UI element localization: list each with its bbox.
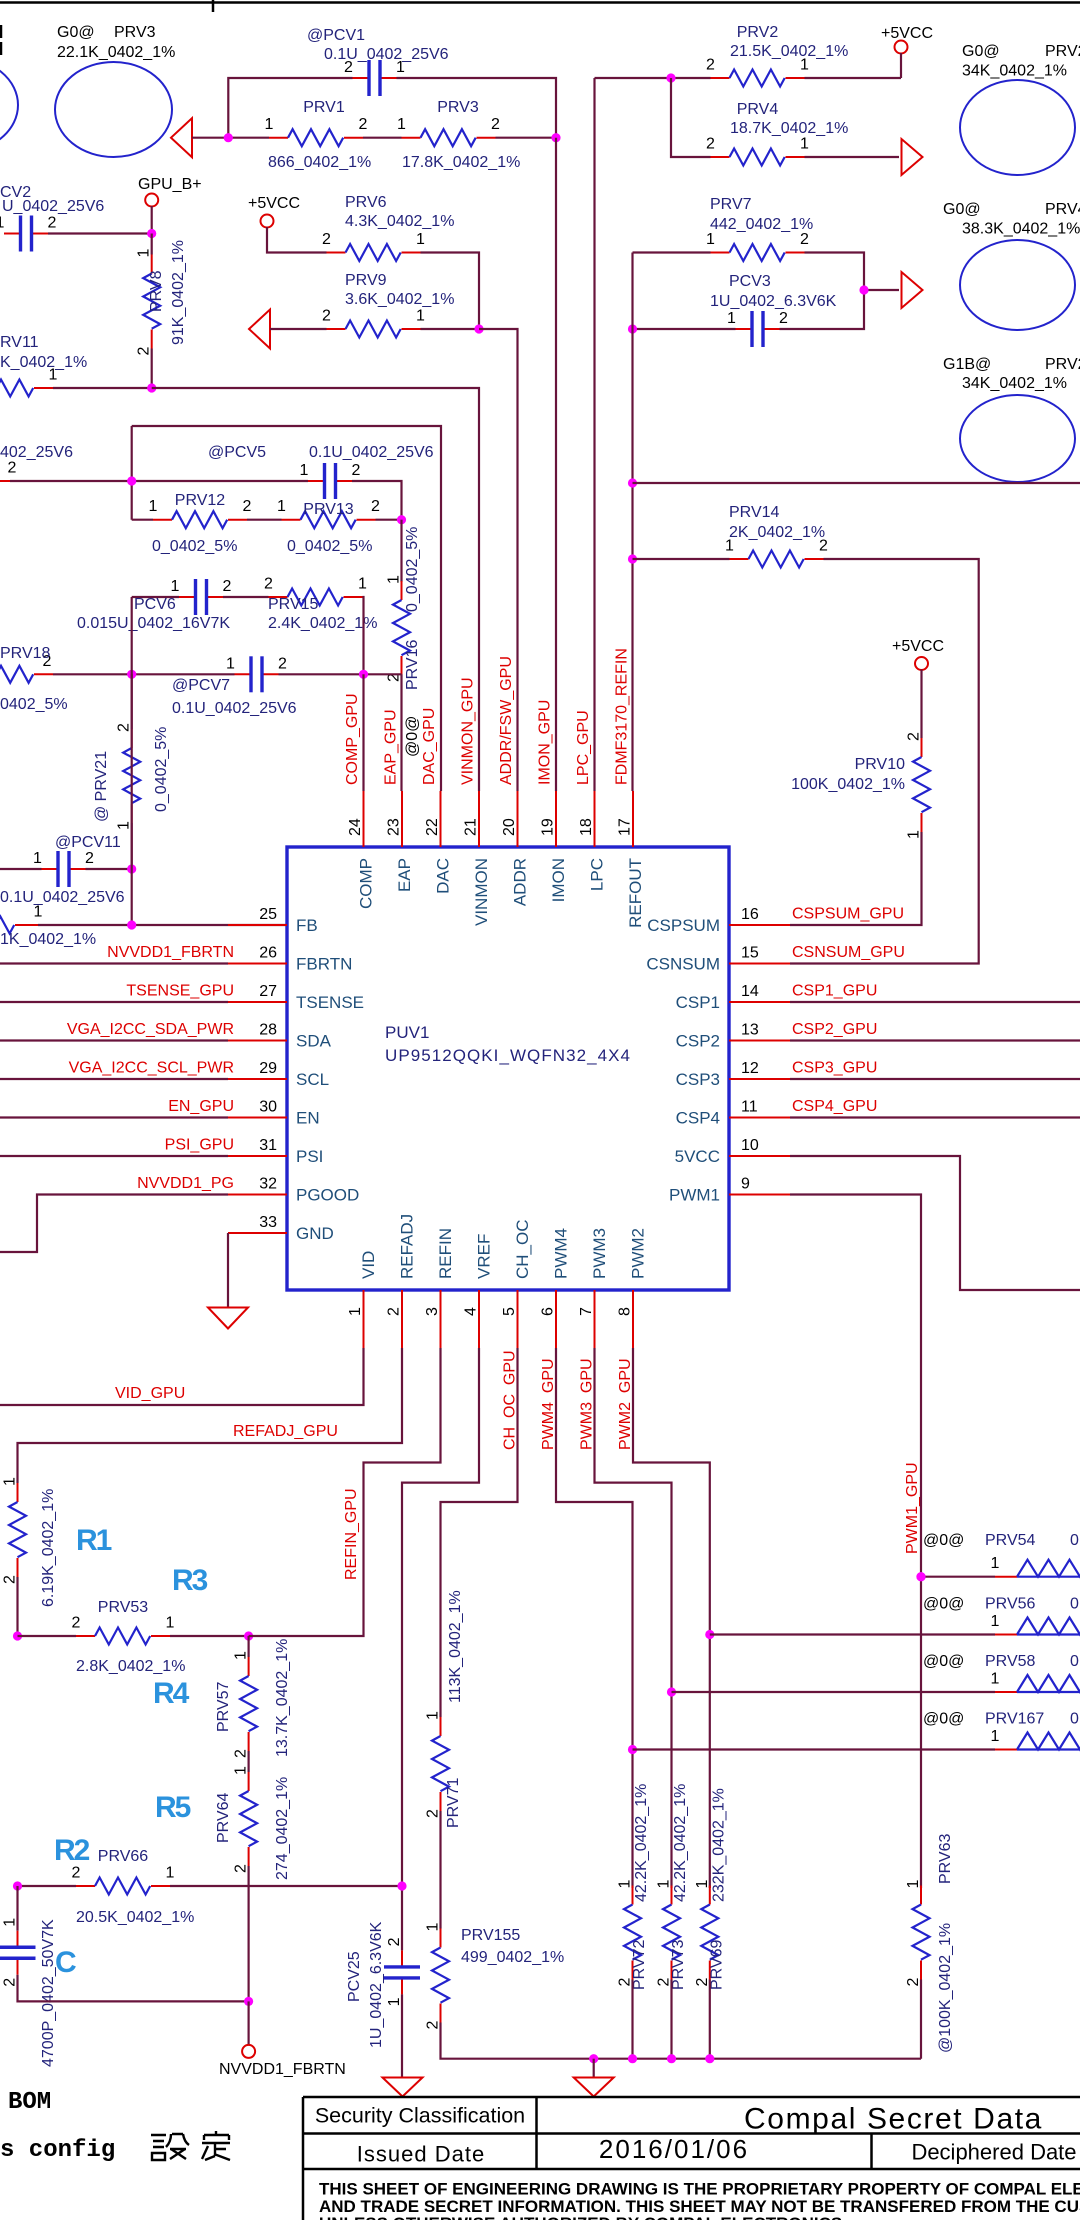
svg-text:3.6K_0402_1%: 3.6K_0402_1% bbox=[345, 291, 454, 308]
svg-text:PRV4: PRV4 bbox=[737, 101, 779, 118]
resistor PRV2 21.5K_0402_1% bbox=[706, 24, 848, 87]
svg-text:13: 13 bbox=[741, 1022, 759, 1039]
pin 24 COMP stub bbox=[347, 791, 376, 909]
svg-text:CSP3: CSP3 bbox=[676, 1070, 720, 1089]
wire PRV66 to VREF node bbox=[170, 1885, 402, 1887]
svg-text:VGA_I2CC_SDA_PWR: VGA_I2CC_SDA_PWR bbox=[67, 1021, 234, 1038]
label PRV10 bbox=[791, 756, 905, 793]
svg-text:1: 1 bbox=[706, 231, 715, 248]
svg-text:2: 2 bbox=[386, 1307, 403, 1316]
svg-text:PRV2: PRV2 bbox=[1045, 43, 1080, 60]
label PRV14 bbox=[729, 504, 825, 541]
svg-text:PWM3: PWM3 bbox=[590, 1228, 609, 1279]
pin 19 IMON stub bbox=[540, 791, 569, 902]
svg-text:7: 7 bbox=[578, 1307, 595, 1316]
svg-text:1: 1 bbox=[136, 249, 153, 258]
wire +5VCC to PRV10 bbox=[920, 670, 922, 739]
svg-text:PRV15: PRV15 bbox=[268, 596, 319, 613]
svg-text:+5VCC: +5VCC bbox=[892, 638, 944, 655]
wire rail gnd drop bbox=[593, 2059, 595, 2078]
svg-text:4: 4 bbox=[463, 1307, 480, 1316]
junction FB node bbox=[127, 920, 136, 929]
svg-text:@0@: @0@ bbox=[923, 1653, 964, 1670]
svg-text:22: 22 bbox=[424, 818, 441, 836]
wire PRV21 bottom link bbox=[131, 823, 133, 869]
resistor PRV4 18.7K_0402_1% bbox=[706, 101, 848, 166]
capacitor PCV3 1U_0402_6.3V6K bbox=[727, 310, 788, 347]
wire PCV11 row left bbox=[0, 868, 42, 870]
svg-text:PRV7: PRV7 bbox=[710, 196, 752, 213]
svg-text:Issued Date: Issued Date bbox=[357, 2142, 485, 2167]
label PRV18 bbox=[0, 645, 68, 713]
label PRV73 bbox=[670, 1784, 689, 1990]
label PRV71 bbox=[445, 1590, 464, 1828]
svg-text:@0@: @0@ bbox=[923, 1532, 964, 1549]
svg-text:LPC_GPU: LPC_GPU bbox=[575, 710, 592, 785]
pin 3 REFIN stub bbox=[424, 1228, 455, 1348]
svg-text:1: 1 bbox=[991, 1555, 1000, 1572]
svg-text:PRV4: PRV4 bbox=[1045, 201, 1080, 218]
svg-text:1: 1 bbox=[416, 308, 425, 325]
svg-text:2.4K_0402_1%: 2.4K_0402_1% bbox=[268, 615, 377, 632]
junction PRV58 tap bbox=[667, 1687, 676, 1696]
label PRV11 bbox=[0, 334, 87, 371]
svg-text:CSP4_GPU: CSP4_GPU bbox=[792, 1098, 877, 1115]
svg-text:CSP1: CSP1 bbox=[676, 993, 720, 1012]
resistor PRV1 866_0402_1% bbox=[265, 99, 372, 171]
label @PCV2 (cut) bbox=[0, 184, 104, 215]
svg-text:0402_5%: 0402_5% bbox=[0, 696, 68, 713]
resistor PRV64 274_0402_1% bbox=[233, 1766, 258, 1873]
svg-text:1: 1 bbox=[656, 1880, 673, 1889]
pin 5 CH_OC stub bbox=[501, 1219, 532, 1348]
svg-text:PRV1: PRV1 bbox=[303, 99, 345, 116]
svg-text:16: 16 bbox=[741, 906, 759, 923]
svg-text:1: 1 bbox=[233, 1651, 250, 1660]
svg-text:2: 2 bbox=[491, 116, 500, 133]
svg-text:THIS SHEET OF ENGINEERING DRAW: THIS SHEET OF ENGINEERING DRAWING IS THE… bbox=[319, 2180, 1080, 2199]
wire PRV167 row bbox=[633, 1748, 996, 1750]
wire PRV63 to rail bbox=[920, 1980, 922, 2059]
wire EAP vertical bbox=[400, 674, 402, 791]
wire PRV155 to rail bbox=[441, 2023, 922, 2059]
svg-text:499_0402_1%: 499_0402_1% bbox=[461, 1949, 564, 1966]
label @0@ PRV167 bbox=[923, 1711, 1079, 1728]
wire NVVDD1_FBRTN row bbox=[0, 962, 228, 964]
svg-text:0: 0 bbox=[1070, 1653, 1079, 1670]
resistor PRV7 442_0402_1% bbox=[706, 231, 809, 261]
wire PCV6 to PRV15 bbox=[223, 596, 269, 598]
svg-text:COMP_GPU: COMP_GPU bbox=[344, 693, 361, 785]
svg-text:RV11: RV11 bbox=[0, 334, 39, 351]
svg-text:1: 1 bbox=[991, 1613, 1000, 1630]
pin 29 SCL stub bbox=[228, 1060, 329, 1089]
pin 31 PSI stub bbox=[228, 1137, 323, 1166]
svg-text:2: 2 bbox=[223, 578, 232, 595]
junction PRV53 left bbox=[13, 1631, 22, 1640]
capacitor C 4700P_0402_50V7K bbox=[0, 1918, 36, 1987]
wire PRV71-PRV155 bbox=[439, 1811, 441, 1929]
wire REFADJ_GPU bbox=[18, 1348, 403, 1483]
wire IMON vertical to pin 19 bbox=[555, 138, 557, 791]
svg-text:2016/01/06: 2016/01/06 bbox=[599, 2134, 749, 2164]
hanzi 定 bbox=[202, 2131, 230, 2160]
label PRV63 bbox=[937, 1833, 954, 2053]
svg-text:5VCC: 5VCC bbox=[675, 1147, 720, 1166]
wire EN_GPU row bbox=[0, 1116, 228, 1118]
wire PCV1 to corner bbox=[397, 78, 557, 138]
svg-text:DAC_GPU: DAC_GPU bbox=[421, 708, 438, 785]
svg-text:CSP4: CSP4 bbox=[676, 1109, 720, 1128]
svg-text:2: 2 bbox=[322, 231, 331, 248]
svg-text:REFIN_GPU: REFIN_GPU bbox=[343, 1488, 360, 1580]
svg-text:PRV63: PRV63 bbox=[937, 1833, 954, 1884]
svg-text:0_0402_5%: 0_0402_5% bbox=[404, 527, 421, 612]
wire PWM1 from pin9 bbox=[790, 1195, 921, 1889]
svg-text:2: 2 bbox=[906, 732, 923, 741]
svg-text:PRV54: PRV54 bbox=[985, 1532, 1036, 1549]
svg-text:402_25V6: 402_25V6 bbox=[0, 444, 73, 461]
label G0@ PRV2 bbox=[962, 43, 1080, 80]
wire PRV66 row seg1 bbox=[18, 1885, 77, 1887]
svg-text:1: 1 bbox=[233, 1766, 250, 1775]
resistor PRV54 @0@ bbox=[991, 1555, 1080, 1577]
svg-text:1: 1 bbox=[149, 498, 158, 515]
svg-text:1: 1 bbox=[991, 1671, 1000, 1688]
ground rail bbox=[574, 2078, 614, 2097]
svg-text:IMON_GPU: IMON_GPU bbox=[537, 700, 554, 785]
wire PRV7 right corner down bbox=[805, 253, 865, 291]
svg-text:LPC: LPC bbox=[588, 858, 607, 891]
svg-text:DAC: DAC bbox=[434, 858, 453, 894]
pin 13 CSP2 stub bbox=[676, 1022, 790, 1051]
svg-text:PRV13: PRV13 bbox=[303, 501, 354, 518]
label PRV9 bbox=[345, 272, 454, 308]
label PRV16 bbox=[404, 527, 421, 757]
pin 23 EAP stub bbox=[386, 791, 415, 892]
svg-text:VID_GPU: VID_GPU bbox=[115, 1385, 185, 1402]
svg-text:@0@: @0@ bbox=[923, 1711, 964, 1728]
wire GPU_B+ node to PRV8 bbox=[151, 234, 153, 255]
ellipse spare G0@ PRV3 bbox=[55, 62, 172, 157]
svg-text:2: 2 bbox=[371, 498, 380, 515]
resistor PRV155 499_0402_1% bbox=[425, 1923, 450, 2030]
svg-text:42.2K_0402_1%: 42.2K_0402_1% bbox=[633, 1784, 650, 1902]
svg-text:+5VCC: +5VCC bbox=[881, 25, 933, 42]
power port +5VCC top bbox=[895, 41, 908, 54]
svg-text:0.1U_0402_25V6: 0.1U_0402_25V6 bbox=[0, 889, 125, 906]
svg-text:30: 30 bbox=[259, 1099, 277, 1116]
svg-text:2: 2 bbox=[264, 576, 273, 593]
wire PCV5 to PRV16 top bbox=[352, 481, 402, 520]
wire PWM2 from pin8 bbox=[633, 1348, 710, 1888]
label PCV6 bbox=[77, 596, 230, 632]
pin 6 PWM4 stub bbox=[540, 1228, 571, 1348]
svg-text:232K_0402_1%: 232K_0402_1% bbox=[710, 1788, 727, 1902]
svg-text:38.3K_0402_1%: 38.3K_0402_1% bbox=[962, 221, 1080, 238]
ellipse spare G0@ PRV2 bbox=[960, 80, 1075, 175]
svg-text:COMP: COMP bbox=[357, 858, 376, 909]
wire PCV2 to GPU_B+ node bbox=[48, 232, 152, 234]
label @PCV1 bbox=[307, 27, 449, 63]
ground pin33 bbox=[208, 1308, 248, 1329]
svg-text:6: 6 bbox=[540, 1307, 557, 1316]
wire 4700P to bottom row bbox=[18, 1975, 249, 2002]
svg-text:GPU_B+: GPU_B+ bbox=[138, 176, 202, 193]
svg-text:PWM2: PWM2 bbox=[629, 1228, 648, 1279]
label @PCV11 bbox=[0, 834, 125, 906]
resistor PRV53 2.8K_0402_1% bbox=[72, 1599, 186, 1675]
svg-text:2: 2 bbox=[72, 1865, 81, 1882]
wire PRV12 row seg1 bbox=[132, 519, 153, 521]
svg-text:ADDR/FSW_GPU: ADDR/FSW_GPU bbox=[498, 656, 515, 785]
resistor PRV58 @0@ bbox=[991, 1671, 1080, 1693]
svg-text:0.015U_0402_16V7K: 0.015U_0402_16V7K bbox=[77, 615, 230, 632]
junction PRV72 rail bbox=[628, 2054, 637, 2063]
wire PRV12-PRV13 bbox=[247, 519, 282, 521]
wire CH_OC from pin5 bbox=[441, 1348, 518, 1717]
svg-text:20.5K_0402_1%: 20.5K_0402_1% bbox=[76, 1909, 194, 1926]
svg-text:1: 1 bbox=[0, 215, 5, 232]
svg-text:1U_0402_6.3V6K: 1U_0402_6.3V6K bbox=[710, 293, 837, 310]
label PRV15 bbox=[268, 596, 377, 632]
capacitor PCV6 0.015U_0402_16V7K bbox=[171, 578, 232, 615]
svg-text:@100K_0402_1%: @100K_0402_1% bbox=[937, 1923, 954, 2053]
port arrow right PCV3 net bbox=[902, 272, 923, 308]
resistor PRV8 91K_0402_1% bbox=[136, 249, 161, 356]
label G0@ PRV4 bbox=[943, 201, 1080, 238]
svg-text:G0@: G0@ bbox=[962, 43, 1000, 60]
svg-text:2: 2 bbox=[85, 850, 94, 867]
wire NVVDD1_PG row bbox=[0, 1195, 228, 1253]
junction PRV167 tap bbox=[628, 1745, 637, 1754]
svg-text:R3: R3 bbox=[172, 1564, 208, 1597]
capacitor PCV25 1U_0402_6.3V6K bbox=[384, 1937, 420, 2006]
svg-text:PWM4: PWM4 bbox=[552, 1228, 571, 1279]
svg-text:2: 2 bbox=[425, 1809, 442, 1818]
svg-text:FBRTN: FBRTN bbox=[296, 955, 352, 974]
svg-text:4.3K_0402_1%: 4.3K_0402_1% bbox=[345, 213, 454, 230]
svg-text:1: 1 bbox=[727, 310, 736, 327]
wire CSP row to right edge bbox=[790, 1039, 1080, 1041]
svg-text:1: 1 bbox=[906, 830, 923, 839]
svg-text:VINMON_GPU: VINMON_GPU bbox=[460, 677, 477, 785]
wire PRV21 top link bbox=[131, 674, 133, 729]
resistor PRV10 100K_0402_1% bbox=[906, 732, 931, 839]
svg-text:0_0402_5%: 0_0402_5% bbox=[287, 538, 372, 555]
junction arrow node bbox=[224, 133, 233, 142]
pin 30 EN stub bbox=[228, 1099, 320, 1128]
junction PCV4 node bbox=[127, 476, 136, 485]
svg-text:0.1U_0402_25V6: 0.1U_0402_25V6 bbox=[309, 444, 434, 461]
wire PRV8 to y388 node bbox=[151, 349, 153, 389]
svg-text:ADDR: ADDR bbox=[511, 858, 530, 906]
pin 22 DAC stub bbox=[424, 791, 453, 894]
pin 7 PWM3 stub bbox=[578, 1228, 609, 1348]
label PRV7 bbox=[710, 196, 813, 233]
pin 20 ADDR stub bbox=[501, 791, 530, 906]
wire PWM3 from pin7 bbox=[595, 1348, 672, 1888]
junction PRV16 top bbox=[397, 515, 406, 524]
svg-text:27: 27 bbox=[259, 983, 277, 1000]
pin 14 CSP1 stub bbox=[676, 983, 790, 1012]
power port +5VCC right bbox=[915, 657, 928, 670]
resistor PRV12 0_0402_5% bbox=[149, 492, 252, 555]
resistor PRV73 42.2K_0402_1% bbox=[656, 1880, 681, 1987]
wire y78 right segment bbox=[805, 77, 902, 79]
svg-text:GND: GND bbox=[296, 1224, 334, 1243]
sheet top border bbox=[0, 1, 1080, 4]
junction PCV11 node bbox=[127, 864, 136, 873]
svg-text:PRV71: PRV71 bbox=[445, 1777, 462, 1828]
junction PRV66 left bbox=[13, 1881, 22, 1890]
svg-text:2: 2 bbox=[278, 655, 287, 672]
wire PRV69 to rail bbox=[709, 1980, 711, 2059]
label PRV72 bbox=[631, 1784, 650, 1990]
resistor PRV18 (cut at left) bbox=[0, 653, 53, 683]
svg-text:EAP: EAP bbox=[395, 858, 414, 892]
pin 27 TSENSE stub bbox=[228, 983, 364, 1012]
resistor PRV66 20.5K_0402_1% bbox=[72, 1848, 195, 1926]
svg-text:+5VCC: +5VCC bbox=[248, 195, 300, 212]
wire long y483 to right edge bbox=[633, 482, 1080, 484]
wire junction up and right to PCV1 bbox=[228, 78, 352, 138]
svg-text:31: 31 bbox=[259, 1137, 277, 1154]
svg-text:1K_0402_1%: 1K_0402_1% bbox=[0, 931, 96, 948]
svg-text:K_0402_1%: K_0402_1% bbox=[0, 354, 87, 371]
wire VREF from pin4 bbox=[402, 1348, 479, 1950]
svg-text:REFADJ_GPU: REFADJ_GPU bbox=[233, 1423, 338, 1440]
svg-text:PRV64: PRV64 bbox=[215, 1792, 232, 1843]
wire PRV6 to corner down bbox=[421, 253, 480, 330]
junction FBRTN node bbox=[244, 1997, 253, 2006]
label @0@ PRV58 bbox=[923, 1653, 1079, 1670]
svg-text:NVVDD1_FBRTN: NVVDD1_FBRTN bbox=[107, 944, 234, 961]
junction GPU_B+ node bbox=[147, 229, 156, 238]
svg-text:PRV10: PRV10 bbox=[855, 756, 906, 773]
wire PRV11 to node bbox=[53, 387, 152, 389]
svg-text:CSP2_GPU: CSP2_GPU bbox=[792, 1021, 877, 1038]
svg-text:1: 1 bbox=[166, 1865, 175, 1882]
svg-text:PRV155: PRV155 bbox=[461, 1927, 520, 1944]
svg-text:PWM4_GPU: PWM4_GPU bbox=[540, 1358, 557, 1450]
pin 18 LPC stub bbox=[578, 791, 607, 891]
wire PRV3 to IMON node bbox=[496, 137, 557, 139]
resistor PRV72 42.2K_0402_1% bbox=[617, 1880, 642, 1987]
svg-text:PRV57: PRV57 bbox=[215, 1681, 232, 1732]
pin 12 CSP3 stub bbox=[676, 1060, 790, 1089]
svg-text:PRV12: PRV12 bbox=[175, 492, 226, 509]
svg-text:PRV9: PRV9 bbox=[345, 272, 387, 289]
svg-text:20: 20 bbox=[501, 818, 518, 836]
wire PRV9 to node bbox=[421, 328, 480, 330]
svg-text:1: 1 bbox=[171, 578, 180, 595]
svg-text:VINMON: VINMON bbox=[472, 858, 491, 926]
svg-text:UNLESS OTHERWISE AUTHORIZED BY: UNLESS OTHERWISE AUTHORIZED BY COMPAL EL… bbox=[319, 2214, 842, 2220]
svg-text:VREF: VREF bbox=[475, 1234, 494, 1279]
svg-text:PRV8: PRV8 bbox=[148, 270, 165, 312]
svg-text:17: 17 bbox=[617, 818, 634, 836]
label PCV3 bbox=[710, 273, 837, 310]
resistor PRV16 0_0402_5% bbox=[386, 575, 411, 682]
ellipse spare G0@ PRV4 bbox=[960, 240, 1075, 330]
svg-text:1: 1 bbox=[2, 1918, 19, 1927]
wire node to ADDR vertical bbox=[479, 329, 518, 791]
svg-text:G0@: G0@ bbox=[943, 201, 981, 218]
svg-text:SDA: SDA bbox=[296, 1032, 332, 1051]
svg-text:PRV56: PRV56 bbox=[985, 1596, 1036, 1613]
svg-text:0.1U_0402_25V6: 0.1U_0402_25V6 bbox=[172, 700, 297, 717]
label PRV57 bbox=[215, 1639, 291, 1757]
svg-text:Deciphered Date: Deciphered Date bbox=[911, 2140, 1076, 2165]
svg-text:14: 14 bbox=[741, 983, 759, 1000]
svg-text:1: 1 bbox=[265, 116, 274, 133]
pin 25 FB stub bbox=[228, 906, 318, 935]
svg-text:PGOOD: PGOOD bbox=[296, 1186, 359, 1205]
wire y388 to VINMON corner bbox=[152, 388, 479, 791]
svg-text:17.8K_0402_1%: 17.8K_0402_1% bbox=[402, 154, 520, 171]
ellipse spare (cut at left edge) bbox=[0, 58, 18, 152]
label @PCV7 bbox=[172, 677, 297, 717]
svg-text:2: 2 bbox=[706, 57, 715, 74]
svg-text:PRV167: PRV167 bbox=[985, 1711, 1044, 1728]
junction PCV3 tap bbox=[628, 324, 637, 333]
wire TSENSE_GPU row bbox=[0, 1001, 228, 1003]
resistor PRV14 2K_0402_1% bbox=[725, 538, 828, 568]
wire PRV54 row bbox=[921, 1576, 995, 1578]
svg-text:2K_0402_1%: 2K_0402_1% bbox=[729, 524, 825, 541]
resistor PRV167 @0@ bbox=[991, 1728, 1080, 1750]
wire PRV56 row bbox=[710, 1633, 995, 1635]
svg-text:2: 2 bbox=[905, 1978, 922, 1987]
resistor PRV3 17.8K_0402_1% bbox=[397, 99, 520, 171]
svg-text:PSI_GPU: PSI_GPU bbox=[165, 1137, 234, 1154]
wire PRV14 to CSNSUM bbox=[790, 559, 979, 964]
svg-text:1: 1 bbox=[425, 1711, 442, 1720]
svg-text:1: 1 bbox=[416, 231, 425, 248]
svg-text:34K_0402_1%: 34K_0402_1% bbox=[962, 63, 1067, 80]
svg-text:23: 23 bbox=[386, 818, 403, 836]
wire PSI_GPU row bbox=[0, 1155, 228, 1157]
svg-text:28: 28 bbox=[259, 1022, 277, 1039]
op-amp U1 PUV1 UP9512QQKI_WQFN32_4X4 body bbox=[287, 847, 729, 1290]
wire PRV16 link bbox=[400, 520, 402, 582]
label PRV155 bbox=[461, 1927, 564, 1966]
wire PRV64 down to FBRTN node bbox=[248, 1866, 250, 2001]
svg-text:1: 1 bbox=[425, 1923, 442, 1932]
svg-text:1: 1 bbox=[2, 1477, 19, 1486]
wire to NVVDD1_FBRTN port bbox=[248, 2001, 250, 2045]
svg-text:22.1K_0402_1%: 22.1K_0402_1% bbox=[57, 44, 175, 61]
svg-text:2: 2 bbox=[243, 498, 252, 515]
svg-text:2: 2 bbox=[425, 2021, 442, 2030]
label @PCV5 bbox=[208, 444, 434, 461]
wire PRV14 row left bbox=[633, 558, 730, 560]
svg-text:18: 18 bbox=[578, 818, 595, 836]
wire comp top box bbox=[132, 426, 441, 791]
port arrow left PRV9 bbox=[249, 310, 270, 349]
svg-text:PWM1: PWM1 bbox=[669, 1186, 720, 1205]
pin 17 REFOUT stub bbox=[617, 791, 646, 928]
svg-text:1: 1 bbox=[397, 116, 406, 133]
svg-text:@ PRV21: @ PRV21 bbox=[93, 751, 110, 822]
junction PWM1/PRV54 bbox=[916, 1572, 925, 1581]
svg-text:2: 2 bbox=[779, 310, 788, 327]
svg-text:2: 2 bbox=[322, 308, 331, 325]
title block texts bbox=[315, 2103, 1080, 2225]
svg-text:REFOUT: REFOUT bbox=[626, 858, 645, 928]
junction y483 tap bbox=[628, 478, 637, 487]
